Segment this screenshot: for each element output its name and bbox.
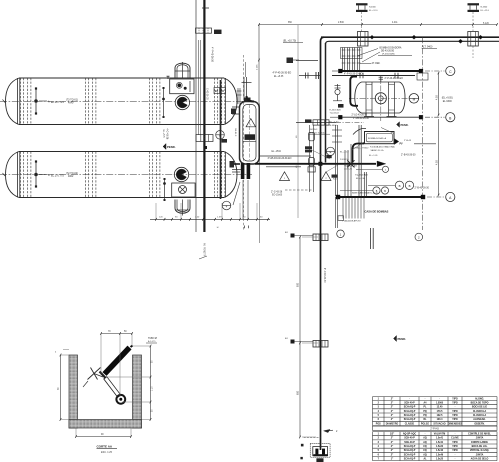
drain arrow note <box>324 429 339 433</box>
drum centerlines <box>349 75 411 121</box>
svg-text:1"-DN-43-26-30: 1"-DN-43-26-30 <box>353 118 370 120</box>
instrument bubble x=330 <box>326 147 334 155</box>
vertical spool pair x=309-313.5 with capsules <box>305 125 315 192</box>
bottom dimension line under tanks y=219 <box>150 203 270 221</box>
tank TQ-2 head weld seam <box>18 152 226 198</box>
svg-text:PEND.: PEND. <box>398 337 407 341</box>
svg-text:2": 2" <box>391 411 393 413</box>
svg-text:1/2": 1/2" <box>390 434 394 436</box>
vertical pipe x=220.5 between tanks <box>220 80 222 199</box>
svg-text:1.5x49: 1.5x49 <box>436 453 444 456</box>
svg-text:AQ-SP-AQC: AQ-SP-AQC <box>403 433 417 436</box>
pump skid labels below <box>369 146 395 158</box>
svg-text:4"x25-DN-40-26-30-EO: 4"x25-DN-40-26-30-EO <box>268 158 292 160</box>
line number labels left of pump house <box>273 73 292 78</box>
svg-text:1": 1" <box>391 458 393 460</box>
svg-text:TIPO: TIPO <box>452 411 458 413</box>
svg-text:VALV/VTM: VALV/VTM <box>434 433 445 436</box>
tank TQ-1 main outlet nozzle (dark circle) <box>175 95 189 109</box>
table title band between tables <box>373 426 498 430</box>
svg-text:SCH-40-P: SCH-40-P <box>404 437 415 440</box>
svg-text:EL.+8.35: EL.+8.35 <box>274 76 284 78</box>
top-left tank centerline ticks <box>3 100 6 177</box>
svg-text:DE-43-26/30: DE-43-26/30 <box>381 51 395 53</box>
svg-text:P-4302A (B.DOSADORA): P-4302A (B.DOSADORA) <box>370 146 395 149</box>
grid bubble B <box>446 113 455 122</box>
svg-text:TIPO: TIPO <box>452 403 458 405</box>
svg-text:4"-P-43-26-30-EO: 4"-P-43-26-30-EO <box>273 73 292 75</box>
svg-text:4.50: 4.50 <box>435 160 438 165</box>
svg-text:CORTE AA: CORTE AA <box>97 445 113 449</box>
pit right dimension chain <box>107 345 153 421</box>
svg-text:1.5x25: 1.5x25 <box>436 458 444 460</box>
vertical grid dash-dot x=422 <box>230 37 422 230</box>
outlet pipe end circle <box>116 395 125 404</box>
svg-text:POLEG: POLEG <box>421 423 429 425</box>
svg-text:N8-EL.9: N8-EL.9 <box>234 129 236 137</box>
svg-text:2"-C-43-26: 2"-C-43-26 <box>271 191 283 193</box>
svg-text:AQ: AQ <box>423 441 427 444</box>
outlet pipe sleeve going down-right <box>105 378 120 397</box>
title CORTE AA <box>97 445 118 454</box>
material table 2 <box>373 432 498 461</box>
svg-text:TIPO: TIPO <box>452 419 458 421</box>
svg-text:1.5000: 1.5000 <box>436 403 444 405</box>
grid line C - heavy header pipe y=71 <box>332 69 445 73</box>
branch line y=122.5 with flanged spool <box>296 119 336 125</box>
pipe line number rotated label <box>323 268 325 283</box>
tiny labels next to top-left column symbol <box>369 7 378 12</box>
warning triangle near manifold <box>246 119 256 127</box>
svg-text:TQ-4301 A/B: TQ-4301 A/B <box>355 174 368 177</box>
pit bottom slab <box>69 420 142 429</box>
label AT.REF <box>360 62 381 65</box>
svg-text:5.120: 5.120 <box>483 23 489 25</box>
structural column symbol top-right grid <box>468 3 480 58</box>
svg-text:VAZAO 50 L/h: VAZAO 50 L/h <box>371 149 385 152</box>
svg-text:ALONG.: ALONG. <box>475 398 484 401</box>
elbow arc below drum left <box>353 128 394 135</box>
pump tag bubble right of drum <box>409 94 419 104</box>
svg-text:SCH 40-P: SCH 40-P <box>404 402 415 405</box>
svg-text:CQ: CQ <box>423 446 427 448</box>
svg-text:EL.+1.05: EL.+1.05 <box>369 155 378 157</box>
structural column symbol top-left grid <box>356 3 368 33</box>
svg-text:ESC. 1:25: ESC. 1:25 <box>101 451 113 454</box>
svg-text:DIAMETRO: DIAMETRO <box>386 422 399 425</box>
svg-text:2"-LG-43-26-30: 2"-LG-43-26-30 <box>352 115 368 117</box>
svg-text:JUNTA: JUNTA <box>476 437 484 440</box>
svg-text:800: 800 <box>297 282 300 287</box>
suction header pipe y=75.5 with labels <box>332 73 415 80</box>
svg-text:2": 2" <box>391 415 393 417</box>
tank TQ-2 nozzle N1 with level gauge <box>35 160 78 187</box>
tank TQ-2 (lower horizontal vessel) <box>0 152 252 198</box>
leader lines to BOMBA DOSADORA label <box>357 47 412 63</box>
svg-text:12.40: 12.40 <box>437 406 444 409</box>
instrument bubbles row 2 <box>373 187 389 194</box>
column at lower area x=371 <box>371 228 374 249</box>
svg-text:EO: EO <box>215 91 219 93</box>
svg-text:M: M <box>413 97 416 101</box>
svg-text:TIPO: TIPO <box>452 442 458 444</box>
svg-text:EO-15x60: EO-15x60 <box>272 195 283 197</box>
dosing drum vessel body <box>355 82 405 113</box>
svg-text:CLAVICULA: CLAVICULA <box>473 414 487 417</box>
svg-text:BOCA DE LIG: BOCA DE LIG <box>472 406 487 409</box>
leader from pump box down-left <box>352 142 364 150</box>
svg-text:EL.9300: EL.9300 <box>443 100 453 103</box>
main overhead pipe run y=37.2 (thick) <box>321 36 499 38</box>
note rows above EO boxes <box>309 128 331 134</box>
tank TQ-2 bottom manway box <box>172 183 195 197</box>
svg-text:B: B <box>399 184 401 188</box>
vertical guide line x=298 with rotated dims <box>296 25 298 218</box>
svg-text:SCH-AQ-P: SCH-AQ-P <box>404 414 416 417</box>
svg-text:1.375: 1.375 <box>217 216 223 218</box>
junction node on suction header at riser <box>318 162 322 166</box>
svg-text:TIPO: TIPO <box>452 415 458 417</box>
label CASA DE BOMBAS <box>365 210 389 214</box>
svg-text:EL.+0.30: EL.+0.30 <box>356 178 366 180</box>
svg-text:TIPO: TIPO <box>452 399 458 401</box>
manifold top nozzle flange <box>244 98 251 103</box>
svg-text:AQ: AQ <box>423 453 427 456</box>
svg-text:OBSERV.: OBSERV. <box>474 423 485 425</box>
elevation dim between grid C and B x=438.5 <box>435 72 439 117</box>
svg-text:2"-P-43-26-30-EO: 2"-P-43-26-30-EO <box>385 78 404 80</box>
svg-text:2.500: 2.500 <box>338 22 344 24</box>
svg-text:1.5x22: 1.5x22 <box>436 446 444 448</box>
flange pair on suction header y=75.5 <box>360 73 398 78</box>
footing box at comb base <box>338 216 344 221</box>
tank TQ-1 nozzle box with fittings <box>170 79 194 94</box>
dark tag near triangle 2 <box>332 175 338 178</box>
pump suction piping verticals in pump house <box>332 125 351 196</box>
corner box below grid C square <box>417 73 428 80</box>
dimension extension line x=259.5 <box>259 103 261 243</box>
drum top nozzle stub <box>379 77 383 83</box>
svg-text:4.411: 4.411 <box>392 22 398 24</box>
svg-text:CQ: CQ <box>423 450 427 452</box>
drum saddle supports <box>364 82 397 117</box>
section bubble 2 lower <box>415 233 423 241</box>
svg-text:4040: 4040 <box>68 102 74 105</box>
svg-text:SCH-AQ-P: SCH-AQ-P <box>404 449 416 452</box>
svg-text:CONTRLE DE NIVEL: CONTRLE DE NIVEL <box>468 434 491 436</box>
pendency flag near TQ-2 <box>163 144 176 150</box>
svg-text:EL.187.721: EL.187.721 <box>51 101 64 104</box>
svg-text:132.5: 132.5 <box>437 415 444 417</box>
svg-text:EL.+12.0: EL.+12.0 <box>481 10 490 12</box>
svg-text:(P-4302 A/B): (P-4302 A/B) <box>382 53 395 56</box>
svg-text:2": 2" <box>391 438 393 440</box>
svg-text:TIPO: TIPO <box>452 446 458 448</box>
svg-text:EO: EO <box>285 232 288 234</box>
valve cross mark in pit <box>83 368 103 388</box>
svg-text:1.5x41: 1.5x41 <box>436 437 444 440</box>
parallel line y=156 and y=166.5 <box>259 156 311 167</box>
flanged spool on cross pipe at x=196-213 <box>196 135 227 150</box>
svg-text:CORPO LAMIN.: CORPO LAMIN. <box>471 441 489 444</box>
elevation label EL+10.70 <box>283 39 303 42</box>
svg-text:1.5x41: 1.5x41 <box>436 441 444 444</box>
svg-text:PQ: PQ <box>423 415 427 417</box>
pit right wall <box>133 355 142 428</box>
svg-text:N.4300: N.4300 <box>369 7 377 9</box>
svg-text:650: 650 <box>297 390 300 395</box>
svg-text:(EL.+10.70): (EL.+10.70) <box>283 39 296 42</box>
svg-text:2.135: 2.135 <box>257 64 259 70</box>
material table 1 <box>373 397 498 426</box>
svg-text:BOCA DE LIG.: BOCA DE LIG. <box>472 445 488 448</box>
svg-text:SCH-AQ-P: SCH-AQ-P <box>404 418 416 421</box>
piping above manifold x=243-252 <box>237 62 255 104</box>
pipe support with base plate lower <box>285 338 328 347</box>
svg-text:AGUA DE SELO: AGUA DE SELO <box>471 457 489 460</box>
pipe anchor detail at bottom <box>300 437 330 462</box>
svg-text:E: E <box>330 150 332 154</box>
svg-text:POS: POS <box>376 423 381 425</box>
svg-text:EL.-1534: EL.-1534 <box>272 151 282 153</box>
pump discharge box (dosing pump skid) <box>365 132 412 146</box>
instrument bubble at manifold left <box>216 131 225 140</box>
valve/flange assembly on riser at top <box>196 8 222 34</box>
svg-text:PEND.: PEND. <box>401 123 409 127</box>
weld point markers on overhead pipes <box>370 35 483 43</box>
svg-text:4.50: 4.50 <box>435 95 438 100</box>
elevation labels EL+9.05 <box>442 97 453 102</box>
svg-text:BASE DA BOMBA EL.+0.15: BASE DA BOMBA EL.+0.15 <box>352 192 379 195</box>
svg-text:CLASSE: CLASSE <box>405 422 415 425</box>
instrument bubble below TQ-2 head <box>222 201 231 210</box>
rotated note at x=202 y=250 <box>199 243 207 259</box>
dashed process line y=193.5 <box>285 189 313 191</box>
svg-text:170.5: 170.5 <box>437 411 444 413</box>
pipe support with base plate upper <box>285 232 328 241</box>
pit bottom dimension <box>75 428 132 438</box>
svg-text:VIRTUAL N. ESQ.: VIRTUAL N. ESQ. <box>470 449 490 452</box>
foundation hatch comb below floor line <box>343 197 365 222</box>
svg-text:AV. PENETR.: AV. PENETR. <box>203 243 206 257</box>
svg-text:E-4301 A/B: E-4301 A/B <box>330 108 342 111</box>
svg-text:C-43-26-30: C-43-26-30 <box>206 88 208 100</box>
svg-text:NOTA 3: NOTA 3 <box>310 128 318 131</box>
svg-text:2": 2" <box>391 403 393 405</box>
labels left margin of pump house <box>330 108 342 127</box>
manifold header between tank nozzles (rounded rectangle) <box>240 102 260 165</box>
svg-text:PEND.: PEND. <box>167 145 176 149</box>
svg-text:PQ: PQ <box>423 411 427 413</box>
pipe end flange at wall entry <box>100 372 107 380</box>
left vertical dimension line x=259 <box>257 25 260 104</box>
svg-text:2": 2" <box>391 442 393 444</box>
elevation dim between grid B and A x=438.5 <box>435 119 439 196</box>
svg-text:SCH-40-P: SCH-40-P <box>404 441 415 444</box>
pipe guide support at column x=473 <box>468 32 479 47</box>
svg-text:B: B <box>409 184 411 188</box>
grid bubble C <box>446 66 455 75</box>
manifold inlet from TQ-2 with fitting <box>230 161 242 172</box>
svg-text:EO: EO <box>285 338 288 340</box>
svg-text:4"-P-43-26-30: 4"-P-43-26-30 <box>323 268 325 283</box>
instrument bubbles row 3 <box>395 181 413 189</box>
svg-text:4002: 4002 <box>68 175 74 178</box>
svg-text:SCH-AQ-P: SCH-AQ-P <box>404 410 416 413</box>
svg-text:N.4300: N.4300 <box>481 7 489 9</box>
svg-text:ALONGAD.: ALONGAD. <box>473 418 486 421</box>
pit left dimension <box>55 350 69 421</box>
long vertical pipe drop x=320.5 <box>320 120 322 450</box>
svg-text:DIMENSOES: DIMENSOES <box>448 423 462 425</box>
tank TQ-2 small side fitting <box>163 178 165 201</box>
pipe guide support at column x=362 <box>358 32 369 47</box>
line number label 4x25-DN <box>268 151 292 160</box>
pump house wall pipes below floor <box>336 197 338 228</box>
svg-text:BOMBA DOSAD.-A: BOMBA DOSAD.-A <box>368 137 387 140</box>
svg-text:AT. REF.: AT. REF. <box>372 62 381 65</box>
pendency flag near drum <box>397 122 409 127</box>
small reference marks below tank dimension line <box>217 226 249 230</box>
svg-text:4″-P-43-26-30: 4″-P-43-26-30 <box>211 47 214 63</box>
svg-text:SITUACAO: SITUACAO <box>433 422 445 425</box>
svg-text:TUBO Ø: TUBO Ø <box>148 338 157 340</box>
dash-dot level line y=121 left of pump house <box>336 122 364 124</box>
svg-text:PLACA DE APOIO: PLACA DE APOIO <box>343 219 361 222</box>
rotated line label above PEND flag <box>162 129 168 140</box>
svg-text:AQ: AQ <box>423 437 427 440</box>
svg-text:CLAVICULA: CLAVICULA <box>473 410 487 413</box>
riser line label (rotated) <box>206 47 214 100</box>
svg-text:BOMBA DOSADORA: BOMBA DOSADORA <box>380 47 402 50</box>
manifold inlet from TQ-1 <box>231 107 240 114</box>
svg-text:CLAVE: CLAVE <box>451 437 459 440</box>
main suction header y=162.5 (thick) to flag <box>255 161 386 167</box>
tank TQ-2 main outlet nozzle (dark circle) <box>174 167 188 181</box>
tank TQ-1 top nozzle stub <box>167 76 170 79</box>
svg-text:N.4300: N.4300 <box>330 125 338 127</box>
svg-text:EL.+5.5: EL.+5.5 <box>162 130 164 139</box>
svg-text:2": 2" <box>391 407 393 409</box>
svg-text:1.10: 1.10 <box>151 386 153 391</box>
vertical dimension chain x=300 <box>297 236 318 439</box>
elevation label ALT.9400 <box>422 45 437 48</box>
small EO tag boxes right of TQ-1 head <box>214 88 225 94</box>
dashed guide line x=243.5 <box>243 55 245 231</box>
svg-text:BOCA DE TOPO: BOCA DE TOPO <box>471 402 489 405</box>
svg-text:130.4: 130.4 <box>437 418 444 421</box>
second overhead pipe run y=41.3 <box>326 41 499 44</box>
instrument bubble row 1 <box>382 166 388 172</box>
svg-text:TIPO: TIPO <box>452 450 458 452</box>
pit left wall <box>69 355 78 428</box>
svg-text:2x40-26: 2x40-26 <box>344 169 353 171</box>
tank TQ-1 small side fitting <box>162 87 164 118</box>
svg-text:2"-B-43-26-30: 2"-B-43-26-30 <box>401 155 416 157</box>
discharge line label right <box>401 144 436 190</box>
svg-text:2": 2" <box>391 446 393 448</box>
extra pump-house note rows <box>312 150 379 195</box>
dark valve pair below manifold <box>233 163 250 219</box>
svg-text:JUNTA: JUNTA <box>476 453 484 456</box>
suction pipe wrapping drum left head (thick C shape) <box>350 77 358 106</box>
warning triangle pair in pump house <box>280 172 332 181</box>
rotated tiny label near TQ-1 head right <box>234 129 236 137</box>
small valve and fittings left of drum <box>333 84 342 101</box>
vertical pipe riser at x=205 from top edge <box>196 0 204 232</box>
tank TQ-2 manway dome below <box>175 200 190 216</box>
section bubble 1 lower <box>337 230 345 238</box>
riser x=325.5 down to pump suction header <box>325 43 327 163</box>
svg-text:2"-B-43: 2"-B-43 <box>404 140 412 142</box>
valve cross at suction junction <box>347 160 354 167</box>
drum manway circle <box>375 93 386 104</box>
pendency flag lower right <box>394 336 407 342</box>
svg-text:2"-B-43-26-30: 2"-B-43-26-30 <box>415 187 430 189</box>
svg-text:EL.170.775: EL.170.775 <box>51 175 64 178</box>
svg-text:CASA DE BOMBAS: CASA DE BOMBAS <box>365 210 389 214</box>
tank TQ-1 head weld seam <box>18 78 226 125</box>
svg-text:TQ-43-02: TQ-43-02 <box>330 113 340 115</box>
tank TQ-1 nozzle N1 with level gauge <box>35 87 78 114</box>
svg-text:EL.+12.0: EL.+12.0 <box>369 10 378 12</box>
svg-text:2": 2" <box>391 450 393 452</box>
grid line B y=117 <box>330 115 445 119</box>
svg-text:2"-PI-43: 2"-PI-43 <box>430 429 439 431</box>
line number label 2-C-43 <box>271 191 283 196</box>
drum line number labels below <box>352 115 370 120</box>
svg-text:2": 2" <box>391 419 393 421</box>
svg-text:2": 2" <box>391 399 393 401</box>
svg-text:2": 2" <box>391 454 393 456</box>
dark fitting left of pump house wall <box>338 104 344 108</box>
svg-text:EL.+2.10: EL.+2.10 <box>340 152 349 154</box>
grid line A - floor line y=197 (thick) <box>336 195 445 199</box>
instrument dark box at x=287-293 <box>287 58 300 64</box>
riser cluster flanged connections top of pump house <box>341 48 363 71</box>
svg-text:SCH-AQ-P: SCH-AQ-P <box>404 453 416 456</box>
svg-text:4-C-43-26: 4-C-43-26 <box>166 129 169 140</box>
svg-text:1.5x10: 1.5x10 <box>436 450 444 452</box>
dark EO tag below bubble E <box>327 155 332 158</box>
incoming inclined pipe (thick black) <box>105 346 133 375</box>
tank TQ-1 manway dome on top <box>175 62 190 78</box>
grid bubble A <box>446 192 455 201</box>
tiny labels next to top-right column symbol <box>481 7 490 12</box>
pump suction elbow (thick) <box>353 144 365 163</box>
leader lines from instrument bubbles <box>340 169 395 190</box>
branch pipe at y=75 with flanges <box>296 61 320 80</box>
tank TQ-1 (upper horizontal vessel) <box>0 78 252 125</box>
pit tube callout top-right <box>146 338 157 343</box>
svg-text:SCH-AQ-P: SCH-AQ-P <box>404 445 416 448</box>
top dimension line y=24.5 <box>258 22 498 26</box>
svg-text:TUBO-43 EO: TUBO-43 EO <box>344 165 357 167</box>
overhead pipe elbow down to riser x=320.5 <box>321 37 325 120</box>
pit top dimension line <box>100 331 133 397</box>
svg-text:ALT. 9400: ALT. 9400 <box>422 45 433 48</box>
pump discharge drop pipes <box>359 125 366 196</box>
svg-text:SCH-AQ-P: SCH-AQ-P <box>404 457 416 460</box>
svg-text:PV: PV <box>400 144 404 146</box>
svg-text:SCH-AQ-P: SCH-AQ-P <box>404 406 416 409</box>
pump house equipment labels <box>333 147 369 181</box>
